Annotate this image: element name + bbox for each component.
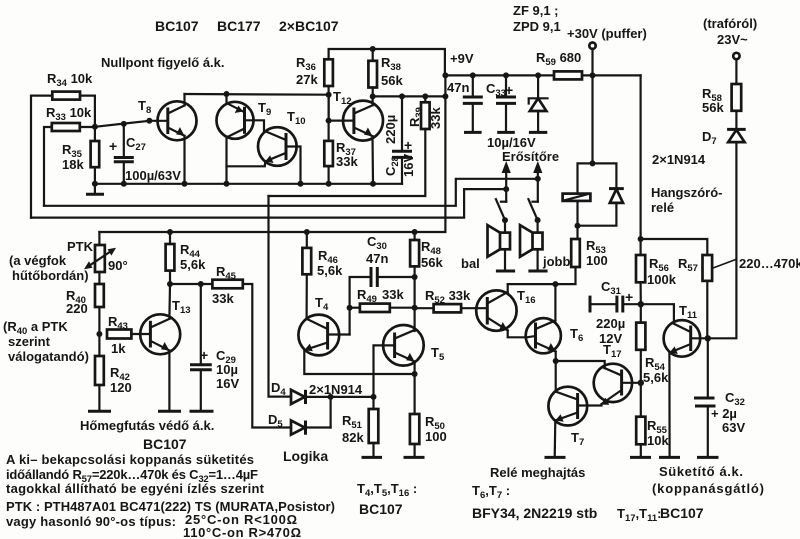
label Rele meghajtas xyxy=(490,465,585,480)
wire T8 emitter down xyxy=(183,136,185,184)
svg-text:szerint: szerint xyxy=(8,334,51,349)
relay coil xyxy=(563,194,591,201)
arrow to amp left xyxy=(502,161,511,202)
resistor R53 xyxy=(571,238,608,268)
svg-text:100: 100 xyxy=(425,429,447,444)
transistor T17 xyxy=(594,342,641,405)
node R40/R42/R43 xyxy=(96,331,102,337)
svg-text:(trafóról): (trafóról) xyxy=(703,16,757,31)
wire T9 base to T10 collector xyxy=(245,120,265,131)
node D4/D5 xyxy=(328,394,334,400)
wire T5 base left down to logika xyxy=(374,345,395,397)
label BFY34, 2N2219 stb xyxy=(472,505,597,521)
wire R54 bottom to T17 base node xyxy=(640,350,642,417)
label T6,T7: xyxy=(472,483,510,501)
label PTK xyxy=(67,239,94,254)
capacitor C30 xyxy=(366,234,415,287)
svg-text:BC107: BC107 xyxy=(359,501,403,517)
wire T10 base down to rail xyxy=(286,147,301,184)
top supply rail to +9V xyxy=(329,49,445,75)
node T12 base xyxy=(326,118,332,124)
diode D5 xyxy=(268,412,331,435)
transistor T16 xyxy=(476,288,535,331)
svg-text:10µ: 10µ xyxy=(216,362,238,377)
svg-text:33k: 33k xyxy=(428,107,443,129)
speaker jobb xyxy=(520,220,548,271)
node T8 base wire xyxy=(146,118,152,124)
node R44 top xyxy=(167,229,173,235)
svg-text:220µ: 220µ xyxy=(596,316,625,331)
svg-text:56k: 56k xyxy=(421,255,443,270)
thermistor PTK xyxy=(84,232,128,273)
wire T16 collector up to rail xyxy=(507,284,509,292)
svg-text:+: + xyxy=(505,82,513,98)
transistor T13 xyxy=(140,298,190,354)
wire left loop from R34 xyxy=(31,96,52,218)
+9V feed down to lower bus xyxy=(99,75,445,232)
resistor R37 xyxy=(324,121,358,169)
node C28 top xyxy=(399,93,405,99)
label Logika xyxy=(283,448,328,464)
text block line6 xyxy=(183,525,301,539)
svg-text:Süketítő á.k.: Süketítő á.k. xyxy=(659,464,743,479)
wire C31 node to T11 base xyxy=(641,304,674,321)
svg-text:12V: 12V xyxy=(599,331,622,346)
label BC107 mid xyxy=(359,501,403,517)
svg-text:33k: 33k xyxy=(212,291,234,306)
svg-text:Hangszóró-: Hangszóró- xyxy=(651,185,723,200)
wire T13 collector up xyxy=(168,284,171,319)
node R38 top xyxy=(370,46,376,52)
svg-text:100k: 100k xyxy=(647,272,677,287)
wire D5 up to D4 node xyxy=(330,397,332,428)
node collector rail at +9V feed xyxy=(442,93,448,99)
text block line4 xyxy=(6,499,335,514)
resistor R51 xyxy=(342,397,378,445)
svg-text:82k: 82k xyxy=(342,430,364,445)
node T12 base top xyxy=(326,92,332,98)
resistor R58 xyxy=(702,84,741,115)
node +30V rail xyxy=(590,72,596,78)
node emitter rail R50 xyxy=(412,371,418,377)
text block line3 xyxy=(6,481,265,496)
wire R39 bottom to bus1 xyxy=(269,129,426,196)
resistor R45 xyxy=(212,264,243,306)
wire T9 top lead xyxy=(225,94,227,103)
svg-text:100µ/63V: 100µ/63V xyxy=(125,168,181,183)
svg-text:10k: 10k xyxy=(647,433,669,448)
node T17 base xyxy=(638,380,644,386)
svg-text:33k: 33k xyxy=(336,154,358,169)
resistor R46 xyxy=(302,232,343,278)
resistor R59 xyxy=(536,50,582,79)
resistor R48 xyxy=(410,232,443,270)
node T12 collector xyxy=(370,93,376,99)
wire T16 emitter to T6 base xyxy=(508,331,536,338)
wire T11 emitter to ground xyxy=(659,353,680,458)
resistor R54 xyxy=(636,304,669,385)
transistor T10 xyxy=(258,109,306,166)
wire R43 to T13 base xyxy=(131,333,150,335)
capacitor C29 xyxy=(190,284,240,411)
wire relay feed down xyxy=(591,75,593,163)
resistor R40 xyxy=(66,272,104,316)
transistor T6 xyxy=(526,318,584,353)
svg-text:+: + xyxy=(404,137,412,153)
node C33 top xyxy=(503,72,509,78)
collector rail to +9V feed xyxy=(373,95,446,97)
label 100u/63V xyxy=(125,168,181,183)
node C31/R56/R54 xyxy=(638,301,644,307)
text block line2 xyxy=(6,467,258,485)
+9V rail xyxy=(445,74,640,76)
ground under R50 xyxy=(404,444,425,457)
bus1 wire corner down to D4 xyxy=(269,196,292,397)
transistor T4 xyxy=(298,295,349,355)
ground under R35 xyxy=(86,184,104,194)
label bal xyxy=(461,256,480,271)
wire R53 bottom to T16/T6 rail xyxy=(508,267,576,284)
resistor R39 xyxy=(407,96,443,129)
svg-text:+9V: +9V xyxy=(450,51,474,66)
wire T4 right lead up to C30 node xyxy=(350,277,370,335)
wire R37 bottom to rail xyxy=(328,166,330,184)
svg-text:Relé meghajtás: Relé meghajtás xyxy=(490,465,585,480)
node T12 emitter rail xyxy=(370,181,376,187)
label ZF 9,1 ; xyxy=(513,3,559,18)
node +9V feed xyxy=(442,72,448,78)
svg-text:90°: 90° xyxy=(108,258,128,273)
svg-text:+: + xyxy=(200,347,208,363)
wire +30V to relay contact line xyxy=(639,75,641,239)
node 47n top xyxy=(470,72,476,78)
resistor R35 xyxy=(62,141,99,172)
svg-text:100: 100 xyxy=(586,253,608,268)
wire node right to T17 collector xyxy=(556,361,605,368)
svg-text:56k: 56k xyxy=(381,73,403,88)
svg-text:5,6k: 5,6k xyxy=(317,263,343,278)
wire R45 right corner down to D5 xyxy=(243,284,291,428)
svg-text:relé: relé xyxy=(651,200,674,215)
svg-text:5,6k: 5,6k xyxy=(643,370,669,385)
svg-text:hűtőbordán): hűtőbordán) xyxy=(12,268,89,283)
svg-text:1k: 1k xyxy=(111,341,126,356)
resistor R55 xyxy=(636,417,669,448)
svg-text:Erősítőre: Erősítőre xyxy=(502,149,559,164)
terminal +30V xyxy=(589,43,595,76)
wire R35 bottom to rail xyxy=(94,167,96,184)
svg-text:120: 120 xyxy=(110,380,132,395)
wire R33 right to node xyxy=(80,126,95,128)
capacitor C28 xyxy=(383,96,416,183)
svg-text:10µ/16V: 10µ/16V xyxy=(487,135,536,150)
resistor R33 xyxy=(46,105,92,131)
label (a vegfok hutobordan) xyxy=(9,253,89,283)
base rail T8-T12 xyxy=(185,93,329,96)
resistor R38 xyxy=(368,49,403,88)
label jobb xyxy=(542,254,570,269)
label +9V xyxy=(450,51,474,66)
resistor R57 xyxy=(678,255,712,281)
svg-text:BC107: BC107 xyxy=(143,436,187,452)
resistor R52 xyxy=(415,288,488,312)
node C27 top xyxy=(121,121,127,127)
svg-text:BC177: BC177 xyxy=(217,18,261,34)
resistor R43 xyxy=(107,314,131,356)
label 23V~ xyxy=(717,32,748,47)
terminal 23V xyxy=(733,53,739,84)
wire node down to T7 collector xyxy=(555,361,557,392)
wire T8 base into bar xyxy=(149,120,167,122)
svg-text:(koppanásgátló): (koppanásgátló) xyxy=(652,481,764,496)
svg-text:+: + xyxy=(109,138,117,154)
svg-text:Logika: Logika xyxy=(283,448,328,464)
svg-text:63V: 63V xyxy=(722,420,745,435)
wire to R57 xyxy=(641,239,708,255)
node T11 collector xyxy=(705,335,711,341)
wire R38 bottom to collector node xyxy=(372,88,374,97)
svg-text:18k: 18k xyxy=(62,157,84,172)
label Homegfutas vedo a.k. xyxy=(80,418,214,433)
wire T7 emitter to ground xyxy=(545,421,566,458)
label 10u/16V erositore xyxy=(487,135,536,150)
svg-text:BC107: BC107 xyxy=(660,505,704,521)
label ZPD 9,1 xyxy=(513,19,561,34)
zener diode ZPD9,1 xyxy=(529,75,548,132)
svg-text:tagokkal állítható be egyéni í: tagokkal állítható be egyéni ízlés szeri… xyxy=(6,481,265,496)
node R56 top contact line xyxy=(638,236,644,242)
diode D7 xyxy=(702,111,746,147)
node T13 collector / R44 / R45 xyxy=(167,281,173,287)
transistor T12 xyxy=(333,89,383,141)
svg-text:jobb: jobb xyxy=(542,254,570,269)
svg-text:+: + xyxy=(625,289,633,305)
wire T6 collector up to rail xyxy=(554,284,556,320)
label T17,T11: BC107 xyxy=(617,505,704,524)
node R33/R34/R35 xyxy=(92,124,98,130)
text block line5 xyxy=(6,512,297,529)
svg-text:2×1N914: 2×1N914 xyxy=(652,152,706,167)
wire R44 bottom to node xyxy=(169,271,171,284)
title BC107 xyxy=(155,18,199,34)
wire T9 collector down to rail xyxy=(225,137,227,184)
capacitor C32 xyxy=(694,338,745,457)
label T4,T5,T16: xyxy=(357,481,417,499)
node T8 emitter rail xyxy=(182,181,188,187)
resistor R49 xyxy=(350,287,415,312)
label (trafrol) xyxy=(703,16,757,31)
wire T12 emitter down to rail xyxy=(371,136,374,184)
label Suketito a.k. xyxy=(659,464,743,479)
node T10 base rail xyxy=(298,181,304,187)
label koppanasgatlo xyxy=(652,481,764,496)
transistor T7 xyxy=(548,387,601,448)
node T6 collector rail xyxy=(552,281,558,287)
svg-text:5,6k: 5,6k xyxy=(180,257,206,272)
wire left loop from R33 xyxy=(44,127,52,206)
wire T10 emitter to left and rail xyxy=(227,162,266,167)
svg-text:Nullpont figyelő á.k.: Nullpont figyelő á.k. xyxy=(101,55,225,70)
node R35/rail xyxy=(92,181,98,187)
wire D7 down to T11 collector xyxy=(708,142,737,338)
capacitor C33 xyxy=(486,75,516,132)
svg-text:2×1N914: 2×1N914 xyxy=(309,382,363,397)
svg-text:16V: 16V xyxy=(216,376,239,391)
svg-text:ZF 9,1 ;: ZF 9,1 ; xyxy=(513,3,559,18)
svg-text:bal: bal xyxy=(461,256,480,271)
resistor R36 xyxy=(296,55,333,87)
node T9 top xyxy=(224,91,230,97)
wire node to R35 xyxy=(94,127,96,141)
arrow to amp right xyxy=(533,161,542,202)
svg-text:vagy hasonló 90°-os típus:: vagy hasonló 90°-os típus: xyxy=(6,514,176,529)
svg-text:33k: 33k xyxy=(382,287,404,302)
svg-text:47n: 47n xyxy=(447,80,469,95)
capacitor 47n xyxy=(447,75,483,132)
node R37 rail xyxy=(326,181,332,187)
wire R36 bottom to base node xyxy=(328,86,330,121)
node T6 emitter / T7 collector / T17 collector xyxy=(553,358,559,364)
wire T13 emitter to ground xyxy=(158,351,181,412)
node T9 collector rail xyxy=(224,181,230,187)
wire node to R45 xyxy=(170,283,212,285)
svg-text:(a végfok: (a végfok xyxy=(9,253,67,268)
wire R57 down to T11 collector node xyxy=(706,281,708,338)
wire R46 down to T4 xyxy=(306,274,308,318)
transistor T11 xyxy=(664,303,708,357)
svg-text:+ 2µ: + 2µ xyxy=(711,406,737,421)
diode D4 xyxy=(271,380,374,404)
transistor T9 xyxy=(217,100,272,139)
svg-text:A ki– bekapcsolási koppanás sü: A ki– bekapcsolási koppanás süketités xyxy=(6,452,254,467)
switch right xyxy=(528,199,540,223)
node zener top xyxy=(535,72,541,78)
bus3 wire from R33 loop to right speaker xyxy=(44,179,538,206)
node C29 top xyxy=(198,281,204,287)
svg-text:+30V (puffer): +30V (puffer) xyxy=(567,26,647,41)
svg-text:BFY34, 2N2219 stb: BFY34, 2N2219 stb xyxy=(472,505,597,521)
emitter rail xyxy=(95,183,402,185)
svg-text:BC107: BC107 xyxy=(155,18,199,34)
speaker bal xyxy=(488,220,516,271)
node left bus join xyxy=(503,186,509,192)
label (R40 a PTK szerint valogatando) xyxy=(3,319,89,364)
label Hangszoro-rele xyxy=(651,185,723,215)
node R46 top xyxy=(304,229,310,235)
node R49 left xyxy=(347,305,353,311)
wire T12 base from node xyxy=(329,95,354,121)
wire R40 to node xyxy=(98,307,100,356)
svg-text:ZPD 9,1: ZPD 9,1 xyxy=(513,19,561,34)
relay loop wires xyxy=(578,163,617,239)
resistor R56 xyxy=(636,239,677,304)
node logika T5 base/R51 xyxy=(371,394,377,400)
label Erositore xyxy=(502,149,559,164)
svg-text:16V: 16V xyxy=(401,154,416,177)
svg-text:220µ: 220µ xyxy=(383,115,398,144)
capacitor C27 xyxy=(109,124,146,184)
wire base node to T8 base xyxy=(95,121,149,127)
text block line1 xyxy=(6,452,254,467)
svg-text:23V~: 23V~ xyxy=(717,32,748,47)
bus2 wire from R34 loop to left speaker xyxy=(31,189,506,218)
resistor R44 xyxy=(166,232,206,272)
transistor T5 xyxy=(383,325,445,366)
label 2x1N914 right xyxy=(652,152,706,167)
label 2x1N914 xyxy=(309,382,363,397)
label +30V (puffer) xyxy=(567,26,647,41)
svg-text:27k: 27k xyxy=(296,72,318,87)
node R39 top xyxy=(422,93,428,99)
resistor R34 xyxy=(47,71,93,100)
wire T8 collector up xyxy=(183,94,185,106)
label Nullpont figyelo a.k. xyxy=(101,55,225,70)
node C30 right / R48 xyxy=(412,274,418,280)
node right bus join xyxy=(535,176,541,182)
node R49/R52/T5 collector xyxy=(412,305,418,311)
title 2xBC107 xyxy=(279,18,339,34)
wire T6 emitter to node xyxy=(555,352,557,362)
transistor T8 xyxy=(138,98,197,140)
wire R48 bottom to node xyxy=(414,266,416,277)
leader line 220...470k xyxy=(713,256,800,271)
svg-text:Hőmegfutás védő á.k.: Hőmegfutás védő á.k. xyxy=(80,418,214,433)
svg-text:56k: 56k xyxy=(702,100,724,115)
resistor R50 xyxy=(410,374,447,444)
capacitor C31 xyxy=(590,279,641,346)
node relay top xyxy=(590,160,596,166)
svg-text:PTK: PTK xyxy=(67,239,94,254)
svg-text:110°C-on R>470Ω: 110°C-on R>470Ω xyxy=(183,525,301,539)
svg-text:220: 220 xyxy=(66,301,88,316)
svg-text:válogatandó): válogatandó) xyxy=(8,349,89,364)
wire R34 right down to R33 node xyxy=(80,96,95,124)
title BC177 xyxy=(217,18,261,34)
wire node down xyxy=(414,277,416,331)
wire T4 emitter down and right xyxy=(304,350,414,374)
svg-text:2×BC107: 2×BC107 xyxy=(279,18,339,34)
label BC107 under xyxy=(143,436,187,452)
node C27 bottom xyxy=(121,181,127,187)
ground under R42 xyxy=(88,385,111,411)
node relay bottom xyxy=(575,223,581,229)
node R48 top xyxy=(412,229,418,235)
ground under R55 xyxy=(630,444,651,457)
switch left xyxy=(496,199,508,223)
svg-text:47n: 47n xyxy=(366,251,388,266)
resistor R42 xyxy=(95,356,132,395)
diode D6 flyback xyxy=(609,189,624,203)
wire T12 collector up xyxy=(371,96,373,105)
ground under R51 xyxy=(362,443,383,457)
wire T5 emitter down xyxy=(414,362,416,375)
svg-text:220…470k: 220…470k xyxy=(739,256,800,271)
